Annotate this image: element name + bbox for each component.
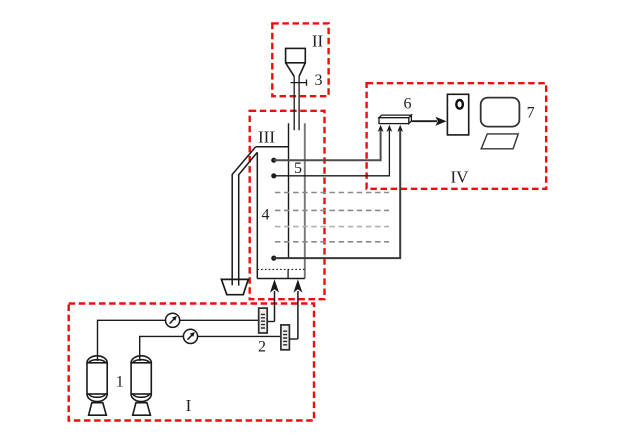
svg-text:IV: IV [451, 168, 470, 187]
gas inlet arrow left head [270, 279, 279, 292]
column 4 partition wall [288, 123, 290, 257]
svg-text:II: II [312, 32, 324, 51]
column 4 bottom edge [257, 278, 305, 280]
tap wire 3 [274, 130, 400, 258]
pressure tap 5 dot middle [271, 173, 276, 178]
gas cylinder 1a [87, 356, 107, 415]
label 3 leader line [291, 80, 307, 86]
keyboard 7 [481, 134, 518, 149]
wire gauge b to rotameter 2b [198, 335, 281, 337]
column 4 distributor plate (dotted) [257, 268, 305, 270]
rotameter 2a [259, 308, 268, 333]
DAQ box 6 [379, 115, 411, 124]
svg-text:5: 5 [294, 160, 302, 177]
region box I (red dashed) [69, 304, 314, 421]
svg-text:1: 1 [116, 374, 124, 391]
svg-text:3: 3 [315, 72, 323, 89]
svg-text:7: 7 [527, 105, 535, 122]
bed level dashed line d [275, 241, 389, 243]
column 4 lid [256, 146, 289, 148]
gas cylinder 1b [131, 356, 151, 415]
tap wire 2 [274, 130, 390, 176]
pressure gauge a [166, 313, 180, 327]
pressure gauge b [183, 329, 197, 343]
bed level dashed line a [275, 192, 389, 194]
gas inlet arrow left line [274, 291, 276, 322]
wire cylinder 1a to gauge [98, 320, 166, 361]
column 4 right wall [304, 123, 306, 278]
region box IV (red dashed) [367, 83, 547, 189]
downcomer pipe [232, 147, 257, 286]
bed level dashed line c [275, 226, 389, 228]
column windbox divider [287, 269, 289, 278]
bed level dashed line b [275, 209, 389, 211]
pressure tap dot lower [271, 256, 276, 261]
column 4 left wall [256, 152, 258, 278]
tap wire 3 arrowhead [397, 125, 403, 132]
wire rotameter 2a to inlet [267, 321, 274, 323]
pressure tap 5 dot upper [271, 158, 276, 163]
wire cylinder 1b to gauge [140, 336, 184, 361]
svg-text:2: 2 [258, 339, 266, 356]
wire rotameter 2b to inlet [289, 338, 298, 340]
tap wire 1 [274, 130, 381, 160]
wire gauge a to rotameter 2a [180, 319, 259, 321]
region box II (red dashed) [272, 23, 328, 96]
gas inlet arrow right head [293, 279, 302, 292]
svg-text:I: I [186, 396, 192, 415]
svg-text:III: III [258, 128, 275, 147]
svg-text:4: 4 [262, 207, 270, 224]
computer tower 7 [447, 94, 468, 135]
tap wire 2 arrowhead [387, 125, 393, 132]
hopper 3 body [286, 48, 306, 76]
svg-text:6: 6 [404, 96, 412, 113]
monitor 7 [481, 98, 520, 127]
hopper 3 feed tube [294, 76, 299, 130]
arrowhead 6 to computer [435, 117, 446, 126]
wire 6 to computer [411, 120, 437, 122]
region box III (red dashed) [250, 111, 325, 299]
collection hopper (trapezoid) [221, 279, 248, 294]
tap wire 1 arrowhead [378, 125, 384, 132]
gas inlet arrow right line [297, 291, 299, 339]
rotameter 2b [281, 325, 290, 350]
